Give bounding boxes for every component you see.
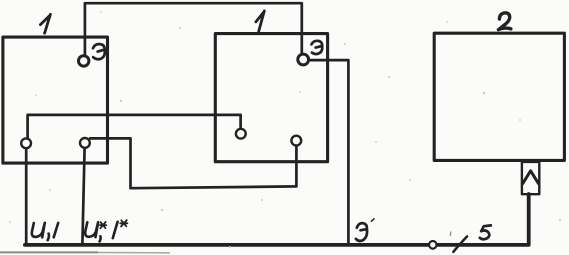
plug chevron arrow [523, 171, 539, 184]
asterisk after U* [100, 222, 107, 228]
switch blade slash [453, 236, 467, 252]
wire from terminal C1 up and right to terminal A [28, 115, 241, 139]
label 5 (switch) [480, 225, 491, 239]
faint tick above switch blade [449, 232, 451, 236]
tick mark near bottom Э [371, 219, 374, 222]
terminal A circle (middle box) [236, 129, 246, 139]
wire top link between Э terminals [85, 3, 302, 56]
label Э (bottom, near rail) [356, 223, 367, 241]
wire from terminal C2 right-down-right-up to terminal B [90, 138, 296, 188]
asterisk after I* [120, 220, 127, 226]
label U*,I* (left box bottom) [85, 222, 117, 242]
scan smudge bottom-left [0, 251, 98, 253]
terminal Э circle (left box) [79, 56, 89, 66]
terminal C1 circle (left box) [21, 138, 31, 148]
label Э (middle box terminal) [312, 41, 323, 54]
label 1 (middle box) [256, 11, 264, 32]
switch contact circle 5 [429, 241, 437, 249]
device box 2 (right) [434, 33, 564, 160]
label 2 (right box) [498, 13, 511, 30]
wire from terminal C1 down to bottom rail [25, 148, 28, 244]
label U,I (left box bottom) [32, 223, 58, 240]
scan smudge tail [98, 252, 170, 254]
terminal C2 circle (left box) [80, 138, 90, 148]
wire from terminal C2 down to bottom rail [82, 148, 84, 244]
wire from middle Э terminal right and down to bottom rail [310, 60, 349, 244]
plug connector rectangle under box 2 [522, 162, 539, 194]
terminal Э circle (middle box) [298, 54, 309, 65]
wattmeter box 1 (left) [3, 37, 108, 163]
wattmeter box 1 (middle) [215, 34, 327, 162]
terminal B circle (middle box) [291, 136, 301, 146]
label 1 (left box) [40, 14, 50, 33]
label Э (left box terminal) [93, 44, 105, 59]
bottom rail wire up to plug of box 2 [25, 194, 529, 245]
